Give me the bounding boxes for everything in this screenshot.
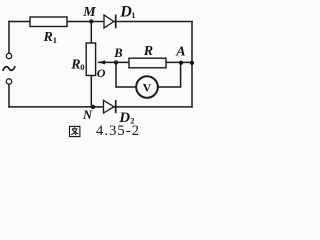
svg-text:R: R <box>43 30 53 45</box>
svg-text:O: O <box>97 66 106 80</box>
svg-text:B: B <box>113 46 122 60</box>
svg-text:N: N <box>82 108 93 122</box>
svg-text:V: V <box>143 80 152 94</box>
svg-text:M: M <box>82 5 96 20</box>
svg-text:A: A <box>175 45 185 60</box>
svg-text:1: 1 <box>131 10 135 20</box>
svg-text:4.35-2: 4.35-2 <box>96 123 140 139</box>
svg-text:0: 0 <box>80 62 84 72</box>
svg-text:R: R <box>70 58 80 73</box>
svg-text:1: 1 <box>53 35 57 45</box>
svg-text:R: R <box>143 44 153 59</box>
